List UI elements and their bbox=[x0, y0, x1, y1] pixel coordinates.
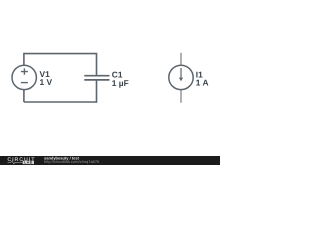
footer bar bbox=[0, 156, 220, 165]
CircuitLab logo waveform bbox=[8, 161, 23, 164]
footer text: url bbox=[44, 160, 100, 165]
wire bottom (node from V1- to C1 bottom) bbox=[24, 101, 97, 103]
CircuitLab logo: CIRCUIT bbox=[7, 156, 35, 162]
wire I1 top stub bbox=[180, 53, 182, 66]
wire right lower segment (C1 bottom lead) bbox=[96, 80, 98, 102]
wire right upper segment (C1 top lead) bbox=[96, 53, 98, 75]
svg-text:LAB: LAB bbox=[24, 161, 32, 165]
svg-text:1 µF: 1 µF bbox=[112, 78, 129, 88]
svg-text:1 V: 1 V bbox=[40, 77, 53, 87]
footer text: user / circuit name bbox=[44, 156, 79, 161]
capacitor C1 bbox=[84, 76, 109, 80]
wire left lower segment bbox=[23, 90, 25, 102]
wire left upper segment bbox=[23, 53, 25, 66]
wire top (node from V1+ to C1 top) bbox=[24, 53, 97, 55]
current source I1 bbox=[169, 53, 193, 103]
svg-text:http://circuitlab.com/c/mq7a67: http://circuitlab.com/c/mq7a676 bbox=[44, 160, 100, 165]
wire I1 bottom stub bbox=[180, 90, 182, 103]
svg-text:1 A: 1 A bbox=[196, 78, 209, 88]
voltage source V1 bbox=[12, 65, 36, 89]
arrow of I1 (points down) bbox=[180, 68, 182, 78]
CircuitLab logo LAB box bbox=[23, 161, 34, 164]
